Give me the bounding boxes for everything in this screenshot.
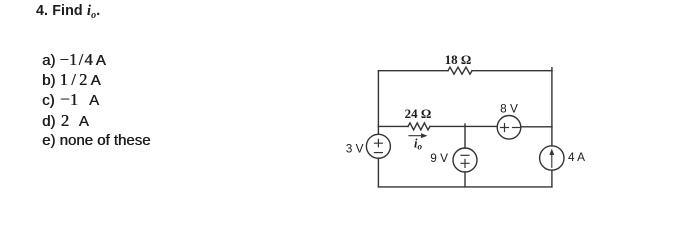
wire right: top segment down to node	[551, 71, 553, 127]
svg-text:io: io	[414, 136, 422, 151]
current arrow io under 24ohm resistor	[409, 135, 424, 137]
wire top: right segment	[472, 70, 552, 72]
svg-text:18 Ω: 18 Ω	[445, 52, 472, 67]
wire left: 3V source up to middle node	[377, 127, 379, 135]
wire middle: 8V source to right wire	[521, 126, 552, 128]
current source I1 arrow up	[551, 152, 553, 167]
node A: middle-left junction	[377, 71, 379, 127]
voltage source V2 plus sign (bottom)	[461, 159, 469, 167]
voltage source V2 9V circle	[453, 148, 477, 172]
svg-text:24 Ω: 24 Ω	[405, 106, 432, 121]
svg-text:8 V: 8 V	[500, 101, 518, 115]
resistor R2 24ohm zigzag	[408, 123, 430, 130]
wire middle: left segment to resistor	[378, 125, 408, 127]
current source I1 4A circle	[540, 146, 564, 170]
wire right: overshoot tick above corner	[551, 68, 553, 71]
node B: junction tick above middle branch	[464, 124, 466, 126]
wire right: below current source to bottom corner	[551, 170, 553, 187]
wire middle: resistor to center node	[430, 125, 465, 127]
svg-text:4 A: 4 A	[568, 150, 585, 164]
voltage source V3 minus sign (right)	[513, 127, 521, 129]
voltage source V1 minus sign	[374, 152, 382, 154]
voltage source V3 8V circle	[497, 116, 521, 140]
problem title "4. Find io."	[36, 3, 100, 21]
wire middle: center node to 8V source	[465, 125, 497, 127]
wire middle branch: node B down to 9V source	[464, 126, 466, 148]
wire left: bottom corner up to 3V source	[377, 158, 379, 187]
voltage source V2 minus sign (top)	[461, 154, 469, 156]
answer options list	[42, 50, 150, 151]
wire bottom	[378, 186, 552, 188]
resistor R1 18ohm zigzag	[448, 67, 472, 74]
voltage source V1 plus sign	[374, 139, 382, 146]
svg-text:3 V: 3 V	[346, 142, 364, 156]
wire right: node to current source	[551, 127, 553, 146]
wire top: left segment	[378, 70, 448, 72]
voltage source V3 plus sign (left)	[501, 124, 509, 132]
wire middle branch: 9V source down to bottom wire	[464, 172, 466, 187]
voltage source V1 3V circle	[366, 134, 390, 158]
svg-text:9 V: 9 V	[430, 151, 448, 165]
